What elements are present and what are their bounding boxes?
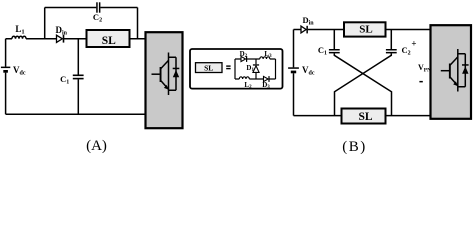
wire diagonal C1 to bottom right (B): [334, 53, 391, 115]
transistor IGBT symbol (B): [441, 49, 469, 92]
svg-text:+: +: [411, 39, 416, 49]
SL block B bottom: [342, 109, 386, 124]
node junction to top branch A: [44, 8, 46, 39]
SL block A: [87, 30, 130, 47]
capacitor C2 (B) plates: [386, 49, 397, 53]
wire top branch A: [45, 8, 138, 39]
diode Din (A): [57, 35, 65, 43]
freewheel diode (A): [173, 68, 180, 78]
wire diagonal C2 to bottom left (B): [335, 53, 392, 115]
legend frame: [190, 49, 283, 89]
label minus: [419, 81, 422, 83]
svg-text:SL: SL: [102, 35, 116, 47]
inductor L2 (legend): [239, 77, 249, 79]
wire bottom rail B: [294, 115, 431, 117]
inverter bridge block A: [146, 32, 183, 128]
wire main top rail A: [6, 38, 146, 40]
SL block legend: [196, 63, 223, 73]
wire SL-cell outline: [235, 59, 276, 79]
voltage source Vdc (A): [1, 67, 10, 73]
capacitor C1 branch (A): [77, 39, 79, 115]
transistor emitter arrow (A): [164, 85, 169, 90]
wire bottom rail A: [6, 113, 146, 115]
SL block B top: [344, 22, 386, 36]
svg-text:SL: SL: [358, 111, 372, 123]
diode Din (B): [301, 26, 308, 34]
capacitor C1 branch (B): [333, 30, 335, 50]
diode D1 vertical (legend): [253, 59, 259, 79]
wire top rail B: [294, 29, 431, 31]
svg-text:SL: SL: [204, 63, 213, 72]
svg-text:(A): (A): [86, 138, 107, 154]
capacitor C2 branch (B): [390, 30, 392, 50]
diode D2 (legend): [241, 56, 247, 62]
transistor IGBT symbol (A): [152, 53, 177, 96]
diode D3 (legend): [264, 76, 270, 82]
capacitor C2 (A): [96, 2, 100, 12]
inductor L3 (legend): [260, 57, 270, 59]
transistor gate bar (A): [160, 67, 162, 82]
inverter bridge block B: [431, 25, 472, 119]
equals sign: [226, 65, 230, 69]
svg-text:(B): (B): [342, 139, 367, 155]
wire left vertical (source branch A): [5, 39, 7, 115]
voltage source Vdc (B): [288, 67, 299, 73]
svg-text:SL: SL: [359, 24, 372, 36]
wire left vertical (source branch B): [293, 30, 295, 116]
capacitor C1 (A) plates: [73, 75, 84, 80]
inductor L1: [12, 36, 26, 39]
capacitor C1 (B) plates: [329, 49, 340, 53]
